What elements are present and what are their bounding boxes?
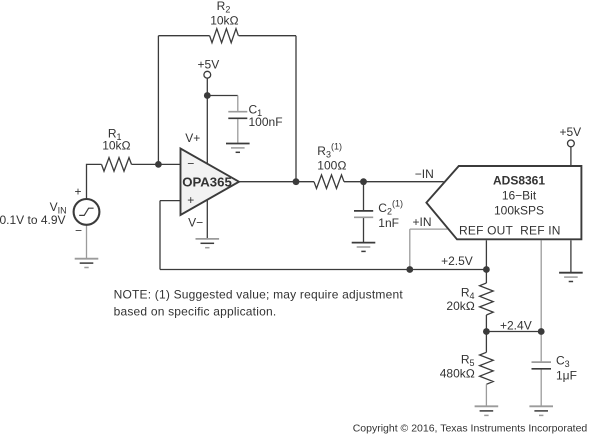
svg-text:10kΩ: 10kΩ: [210, 13, 239, 27]
svg-text:1μF: 1μF: [556, 369, 577, 383]
svg-text:OPA365: OPA365: [182, 174, 232, 189]
svg-text:1nF: 1nF: [378, 216, 399, 230]
svg-text:480kΩ: 480kΩ: [440, 367, 475, 381]
svg-text:−: −: [75, 223, 82, 237]
svg-text:+IN: +IN: [413, 215, 432, 229]
svg-text:0.1V to 4.9V: 0.1V to 4.9V: [0, 213, 66, 227]
svg-text:100nF: 100nF: [249, 115, 283, 129]
svg-text:based on specific application.: based on specific application.: [114, 305, 277, 319]
svg-text:−: −: [187, 157, 194, 171]
svg-text:+2.4V: +2.4V: [500, 319, 532, 333]
svg-text:20kΩ: 20kΩ: [446, 299, 475, 313]
svg-text:100Ω: 100Ω: [317, 159, 346, 173]
svg-text:V+: V+: [185, 131, 200, 145]
svg-text:Copyright © 2016, Texas Instru: Copyright © 2016, Texas Instruments Inco…: [353, 422, 588, 434]
svg-text:100kSPS: 100kSPS: [494, 204, 544, 218]
svg-text:+2.5V: +2.5V: [441, 254, 473, 268]
svg-text:10kΩ: 10kΩ: [102, 139, 131, 153]
svg-text:−IN: −IN: [415, 167, 434, 181]
svg-text:+: +: [74, 184, 81, 198]
svg-text:+: +: [187, 193, 194, 207]
svg-text:+5V: +5V: [198, 58, 220, 72]
svg-text:16−Bit: 16−Bit: [502, 189, 537, 203]
svg-text:ADS8361: ADS8361: [493, 174, 545, 188]
svg-text:V−: V−: [188, 215, 203, 229]
svg-text:+5V: +5V: [559, 125, 581, 139]
svg-text:REF OUT REF IN: REF OUT REF IN: [459, 224, 561, 238]
svg-text:NOTE: (1) Suggested value; may: NOTE: (1) Suggested value; may require a…: [114, 288, 404, 302]
